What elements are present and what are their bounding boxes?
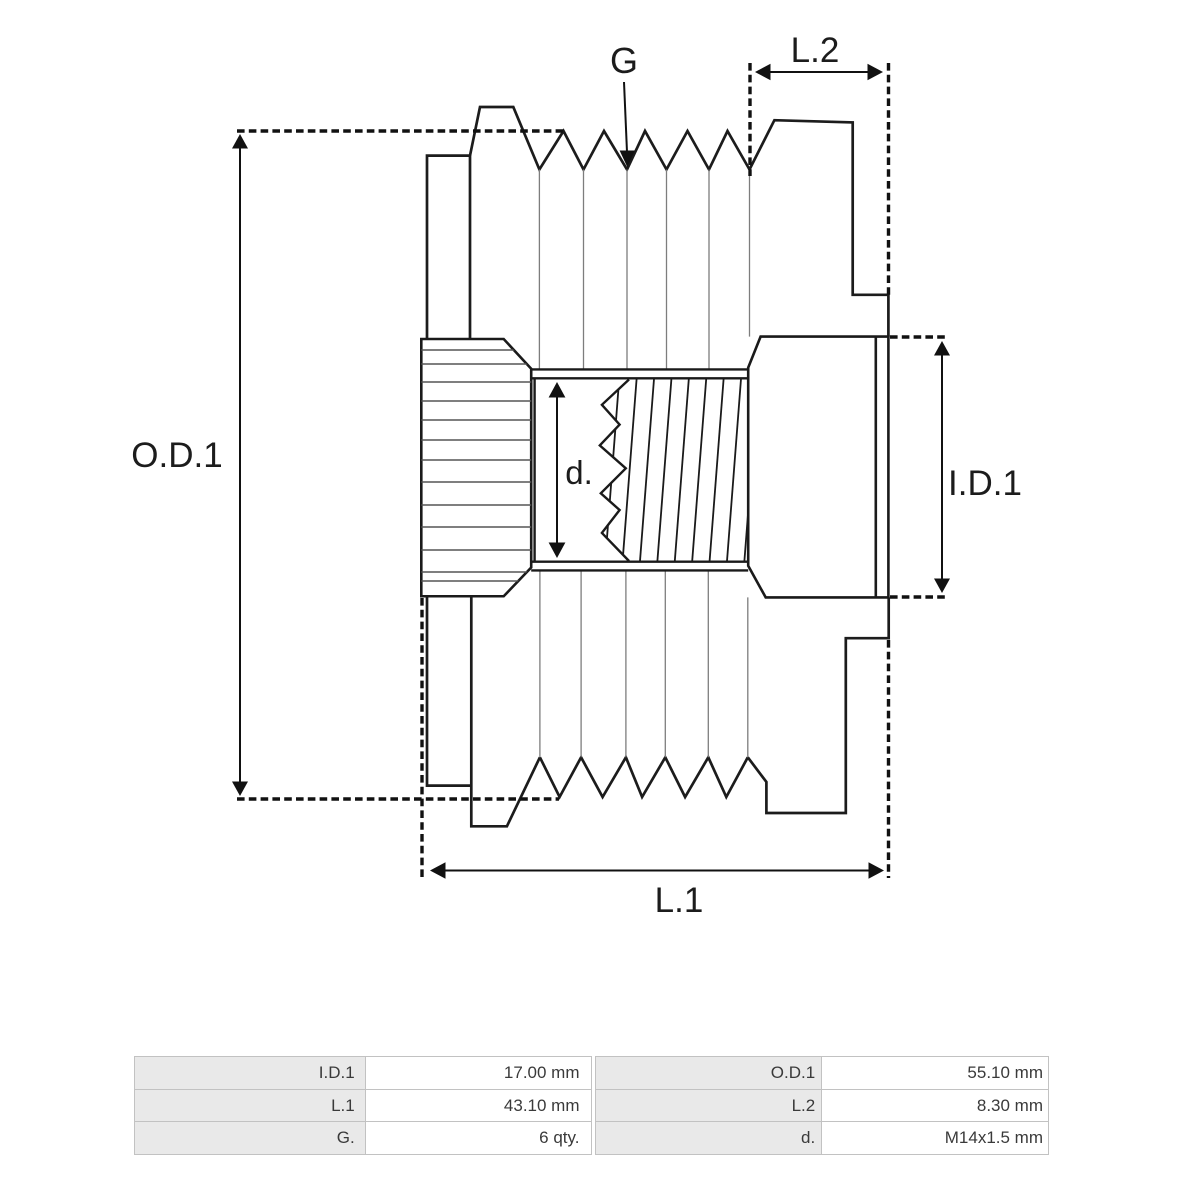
- right flange and body right edge top: [750, 120, 889, 336]
- left flange trapezoid and belt groove zigzag: [470, 107, 750, 170]
- bottom right flange and body right edge: [748, 597, 889, 813]
- svg-text:L.2: L.2: [791, 31, 840, 70]
- I.D.1 dimension: [934, 341, 950, 593]
- svg-text:I.D.1: I.D.1: [948, 464, 1022, 503]
- bearing block right: [748, 337, 888, 598]
- svg-text:L.1: L.1: [655, 881, 704, 920]
- O.D.1 dimension: [232, 134, 248, 796]
- d. dimension: [549, 382, 566, 558]
- G arrow: [620, 82, 635, 167]
- dashed extension lines: [237, 63, 947, 878]
- bottom belt groove zigzag: [540, 757, 748, 797]
- groove bottom thin lines top: [539, 170, 749, 370]
- left shoulder bottom: [427, 596, 471, 785]
- L.2 dimension: [755, 64, 883, 80]
- groove bottom thin lines bottom: [540, 570, 748, 757]
- pulley top profile: [427, 107, 889, 826]
- thread break zigzag: [600, 380, 629, 562]
- L.1 dimension: [430, 862, 884, 878]
- hatched bushing block left: [418, 339, 535, 596]
- svg-text:G: G: [610, 40, 638, 81]
- bore double lines: [531, 369, 748, 570]
- svg-text:d.: d.: [565, 454, 593, 491]
- left shoulder top: [427, 156, 470, 339]
- svg-text:O.D.1: O.D.1: [131, 436, 222, 475]
